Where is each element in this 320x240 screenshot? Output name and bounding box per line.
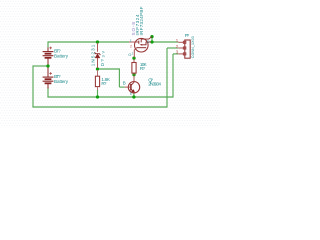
wire battery BT2 bottom drop [47, 88, 49, 98]
transistor Q1 2N3904 [125, 76, 140, 97]
svg-text:D?: D? [100, 59, 105, 66]
wire pin 3 horizontal [173, 53, 178, 55]
svg-text:CONN_1X03: CONN_1X03 [191, 36, 195, 58]
svg-text:R?: R? [140, 66, 145, 71]
svg-text:2N3904: 2N3904 [148, 81, 161, 86]
node junction R2 bottom collector [132, 73, 135, 76]
svg-text:2: 2 [130, 45, 132, 49]
node junction battery midtap [46, 64, 49, 67]
node junction mosfet drain pin bottom [150, 40, 153, 43]
svg-text:B: B [123, 81, 126, 86]
wire base tap vertical [118, 68, 120, 87]
wire battery midtap horizontal [33, 65, 48, 67]
mosfet U1 p-channel [129, 37, 152, 58]
wire midtap bottom horizontal [32, 106, 167, 108]
wire mosfet drain pin stub [151, 37, 153, 42]
resistor R2 10K [132, 63, 136, 74]
wire R2 bottom pin [133, 73, 135, 75]
wire pin 2 horizontal [167, 47, 178, 49]
wire R1 bottom pin [97, 87, 99, 90]
svg-text:3V: 3V [102, 50, 106, 57]
wire top rail battery plus to mosfet source [48, 41, 129, 43]
wire midtap left vertical [32, 65, 34, 107]
wire resistor R1 bottom to rail [97, 90, 99, 97]
wire battery BT1 top drop [47, 41, 49, 47]
wire bottom ground rail [47, 96, 173, 98]
wire into base pin [119, 86, 124, 88]
resistor R1 1.8K [95, 76, 99, 86]
svg-text:IRF7324PBF: IRF7324PBF [139, 6, 144, 35]
wire zener tap to base horizontal [98, 68, 120, 70]
svg-text:R?: R? [101, 81, 106, 86]
node junction zener resistor base [96, 67, 99, 70]
node junction mosfet drain pin top [150, 35, 153, 38]
connector P1 CONN_1X03 [178, 40, 190, 58]
node junction mosfet gate R2 top [132, 57, 135, 60]
svg-text:P?: P? [185, 33, 190, 38]
wire emitter to rail [133, 93, 135, 97]
battery BT2 [43, 68, 54, 89]
svg-text:1N5231: 1N5231 [91, 44, 96, 66]
wire R2 top pin [133, 59, 135, 63]
node junction R1 bottom rail [96, 95, 99, 98]
svg-text:D: D [147, 39, 150, 44]
battery BT1 [43, 47, 54, 65]
wire rail right vertical to pin 3 [172, 54, 174, 98]
svg-text:Battery: Battery [54, 53, 69, 58]
svg-text:Battery: Battery [54, 79, 69, 84]
wire mosfet drain to connector pin 1 [152, 41, 178, 43]
node junction emitter rail [132, 95, 135, 98]
zener diode D1 1N5231 [95, 43, 101, 77]
node junction top rail zener [96, 40, 99, 43]
wire midtap right vertical to pin 2 [166, 48, 168, 108]
svg-text:1: 1 [130, 39, 132, 43]
